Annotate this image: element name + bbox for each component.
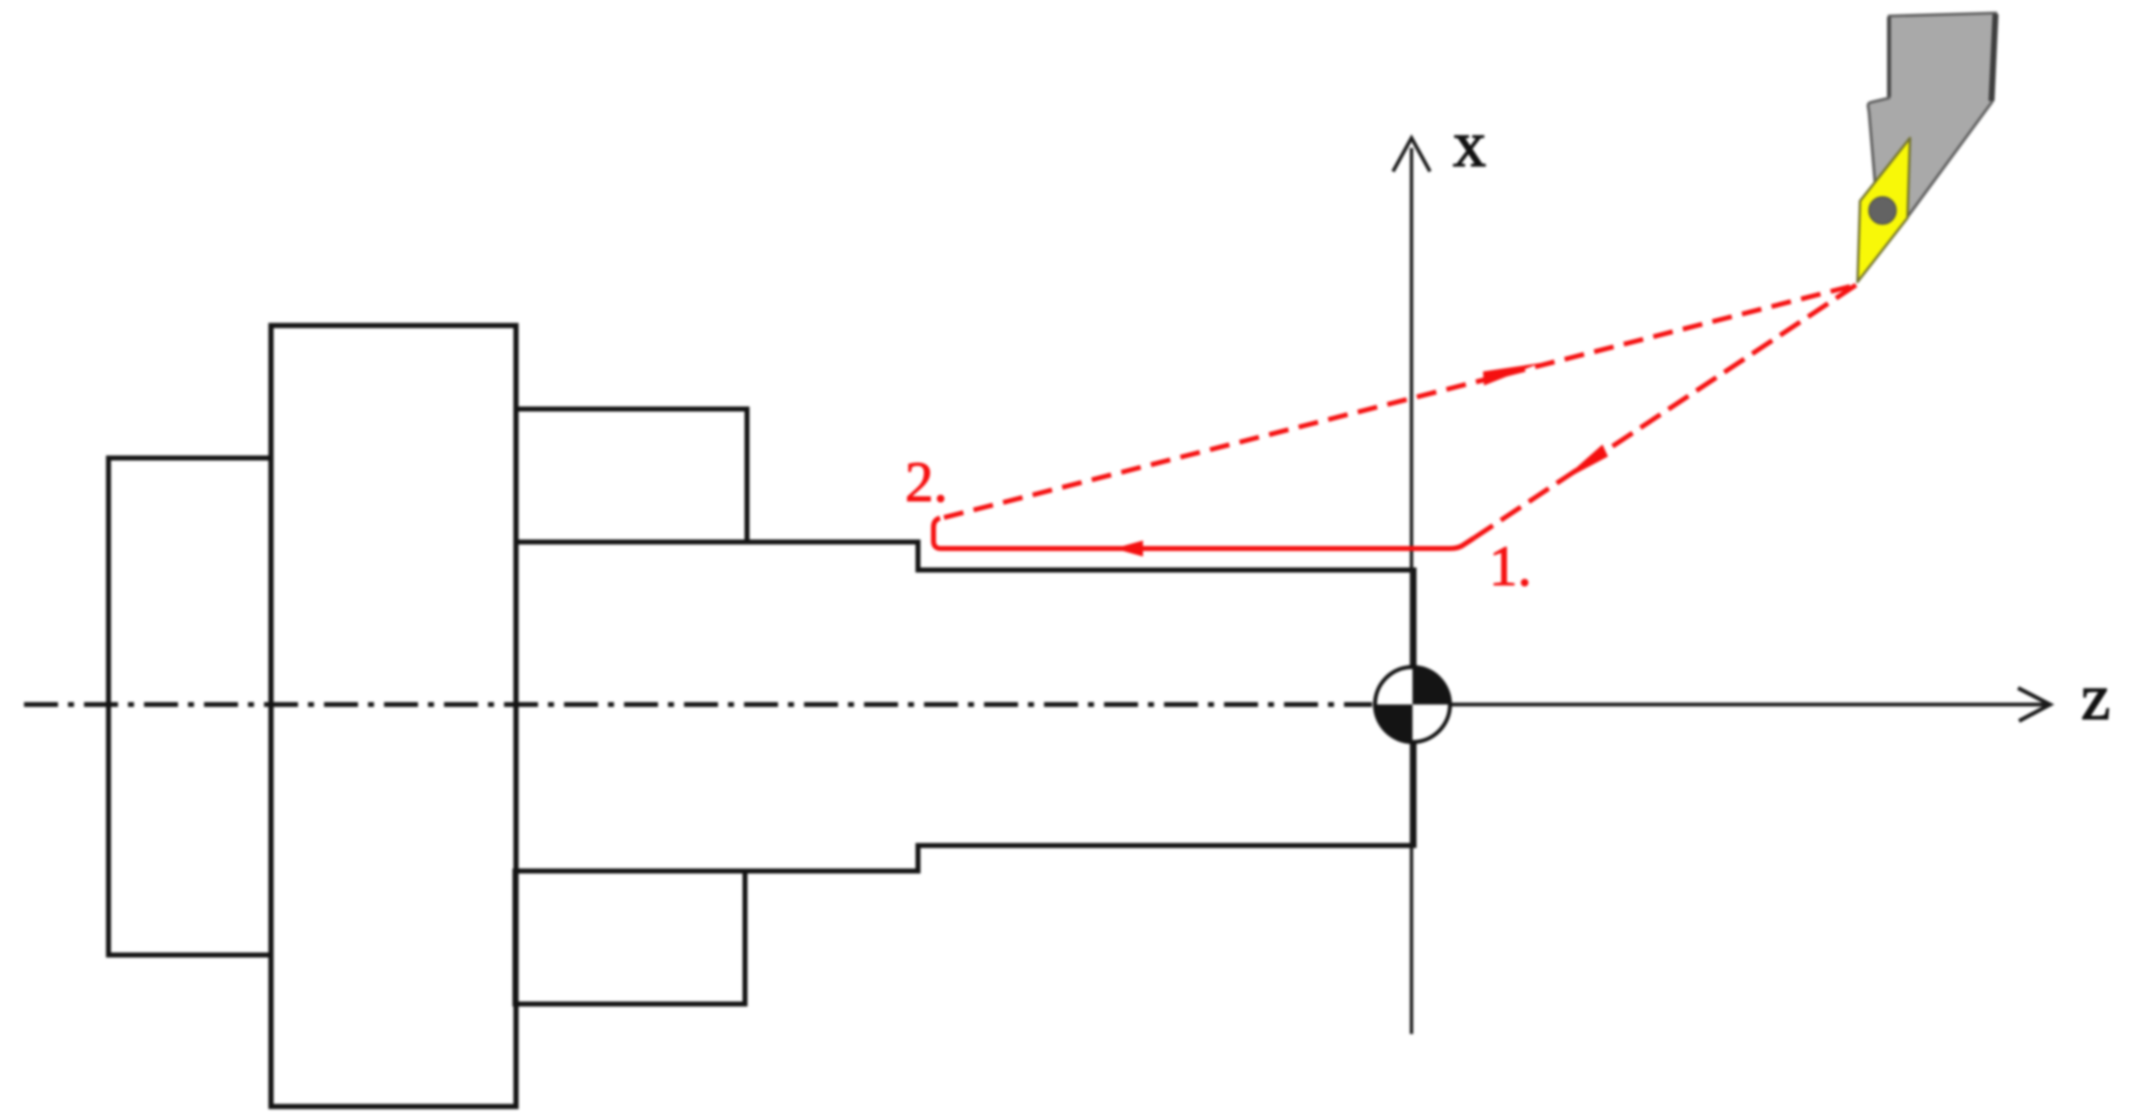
origin symbol	[1375, 667, 1450, 742]
tool holder dark right edge	[1992, 14, 1996, 101]
X axis	[1410, 148, 1413, 1034]
tool holder	[1868, 13, 1996, 250]
centerline	[24, 702, 1372, 707]
approach arrow	[1560, 445, 1608, 483]
svg-text:z: z	[2081, 661, 2110, 734]
svg-text:2.: 2.	[905, 451, 948, 514]
retract arrow	[1483, 363, 1541, 386]
chuck bottom jaw	[515, 871, 745, 1004]
svg-text:x: x	[1453, 108, 1486, 181]
retract rapid dashed line	[944, 285, 1856, 518]
svg-text:1.: 1.	[1489, 535, 1532, 598]
chuck top jaw	[516, 409, 747, 542]
Z axis arrowhead	[2018, 688, 2050, 721]
chuck back flange	[109, 458, 272, 955]
toolpath solid cut line	[934, 518, 1475, 549]
insert hole	[1869, 197, 1896, 224]
chuck body	[271, 326, 516, 1107]
tool holder dark left edge	[1887, 17, 1891, 97]
X axis arrowhead	[1393, 138, 1430, 172]
workpiece profile	[515, 542, 1414, 871]
tool insert	[1858, 138, 1911, 282]
Z axis	[1412, 703, 2046, 707]
cut direction arrow	[1114, 541, 1143, 557]
approach rapid dashed line	[1474, 285, 1856, 538]
